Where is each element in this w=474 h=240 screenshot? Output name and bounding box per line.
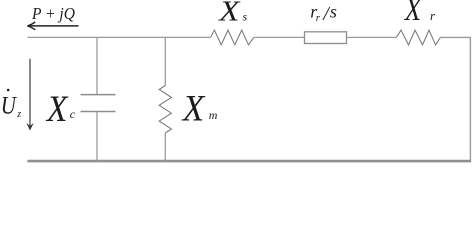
label X_c [45, 88, 76, 130]
label X_m [181, 88, 218, 129]
bottom rail [27, 160, 471, 163]
reactance X_s zigzag [211, 30, 254, 45]
reactance X_m zigzag [159, 86, 171, 134]
svg-text:X: X [217, 0, 241, 27]
svg-text:z: z [16, 109, 21, 120]
capacitor branch lower wire [96, 112, 98, 162]
svg-text:s: s [243, 10, 248, 24]
magnetizing branch lower wire [164, 133, 166, 161]
wire between X_s and box [254, 36, 305, 38]
svg-text:c: c [70, 107, 76, 121]
svg-text:U: U [1, 91, 18, 119]
label r_r/s [310, 1, 337, 25]
label X_r [404, 0, 436, 28]
power-flow arrow [27, 22, 78, 30]
magnetizing branch upper wire [164, 37, 166, 85]
wire top rail left [27, 36, 210, 38]
wire between box and X_r [347, 36, 397, 38]
svg-text:r: r [316, 12, 321, 24]
capacitor branch upper wire [96, 37, 98, 94]
capacitor X_c plates [81, 95, 116, 112]
svg-text:X: X [404, 0, 422, 28]
svg-text:s: s [330, 1, 337, 21]
svg-text:X: X [45, 88, 69, 130]
label X_s [217, 0, 247, 27]
voltage arrow U [26, 59, 33, 131]
svg-text:P + jQ: P + jQ [31, 6, 75, 24]
reactance X_r zigzag [396, 30, 440, 45]
resistor r_r/s box [305, 32, 347, 44]
label U_z with dot [1, 89, 22, 120]
wire X_r to right corner [440, 37, 470, 161]
svg-text:m: m [209, 108, 218, 122]
svg-text:X: X [181, 88, 206, 129]
